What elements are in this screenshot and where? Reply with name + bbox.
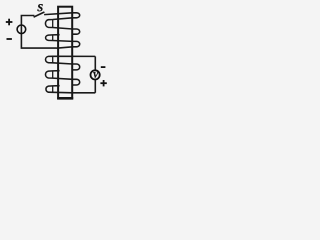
wire: switch to primary coil (44, 13, 72, 15)
svg-text:S: S (37, 3, 43, 14)
wire: battery loop (top-left corner, vertical through source, bottom wire) (21, 16, 56, 49)
switch S blade (34, 12, 45, 17)
plus label (voltmeter) (100, 80, 106, 86)
wire: secondary top to voltmeter (94, 56, 96, 70)
secondary coil left chords (52, 56, 54, 92)
core (iron bar) (58, 7, 72, 99)
wire: voltmeter bottom (94, 80, 96, 93)
minus label (battery) (7, 38, 12, 40)
core bottom edge (57, 97, 73, 100)
battery (source circle) (17, 25, 26, 34)
minus label (voltmeter) (101, 66, 106, 68)
voltmeter V (91, 70, 100, 79)
plus label (battery) (6, 19, 13, 26)
primary coil left chords (52, 20, 54, 41)
secondary coil (45, 56, 95, 93)
primary coil (45, 13, 79, 48)
